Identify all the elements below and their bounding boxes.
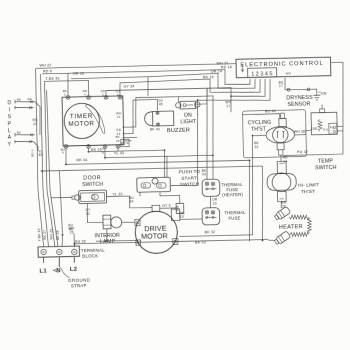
wire control pin 4 to node WH-17 [231, 79, 266, 97]
svg-text:(HEATER): (HEATER) [222, 192, 243, 197]
svg-text:2: 2 [102, 93, 104, 97]
wire display P1 to bus [35, 102, 41, 135]
on light body [180, 101, 196, 109]
svg-text:RD 16: RD 16 [221, 65, 232, 69]
svg-text:BK 32: BK 32 [205, 230, 216, 234]
svg-text:I: I [9, 107, 11, 113]
wire WH-25 drop to L2 [73, 233, 75, 247]
wire control pin 5 to push-to-start switch [168, 79, 273, 186]
wire bus BK-27 [40, 74, 48, 247]
wire BK-33 BU-28 terminal block to heater [74, 239, 268, 247]
wire WH-22 top bus to electronic control [36, 64, 236, 69]
svg-text:TEMP: TEMP [318, 158, 334, 164]
drive motor circle [135, 211, 178, 254]
svg-text:D: D [7, 100, 11, 106]
svg-text:MOTOR: MOTOR [141, 232, 168, 241]
wire sensor to ground GN [311, 89, 316, 95]
svg-text:YL 43: YL 43 [114, 151, 124, 155]
wire V2 drop to thermal fuse heater [205, 89, 209, 180]
wire timer right stub 3 [123, 136, 137, 138]
svg-text:BK 15: BK 15 [91, 147, 102, 151]
drive motor right box [171, 209, 180, 221]
svg-text:T-BK 43: T-BK 43 [45, 76, 59, 80]
wire heater plug tip [269, 239, 276, 242]
wire lamp bottom drop [106, 229, 109, 241]
wire timer right to buzzer [122, 100, 159, 134]
svg-text:L1: L1 [39, 268, 47, 274]
svg-text:BK 33: BK 33 [195, 240, 206, 244]
wire RD-6 / RD-16 to control pin 1 [42, 69, 250, 89]
timer terminal B4 bottom [116, 145, 120, 149]
svg-text:YL 33: YL 33 [112, 192, 122, 196]
door switch body [79, 190, 107, 204]
svg-text:WH: WH [285, 71, 291, 75]
svg-text:L2: L2 [70, 267, 78, 273]
temp switch top pin [320, 109, 325, 113]
svg-text:DOOR: DOOR [83, 175, 101, 181]
terminal L1 [41, 249, 47, 255]
svg-text:BLOCK: BLOCK [82, 253, 98, 258]
heater lower plug [274, 231, 291, 246]
heater upper plug [274, 206, 291, 221]
wire lower bus [42, 166, 264, 245]
electronic control box [236, 57, 331, 78]
svg-text:SWITCH: SWITCH [315, 165, 337, 171]
display connector P2 [15, 133, 35, 136]
wire L2 lead [73, 257, 75, 262]
wire GY-9 motor jumper [160, 208, 178, 210]
svg-text:BK 40: BK 40 [150, 128, 160, 132]
wire door switch to interior lamp [87, 203, 103, 223]
electronic control connector 1 2 3 4 5 [247, 68, 276, 78]
svg-text:GY 34: GY 34 [123, 84, 134, 88]
temp switch resistor 10K [318, 119, 322, 131]
timer terminal B3 bottom [103, 145, 107, 149]
timer terminal T3 top [104, 95, 108, 99]
drive motor top terminal box [152, 205, 160, 211]
svg-text:BU: BU [17, 131, 22, 135]
push-to-start switch button [152, 178, 158, 184]
svg-text:STRAP: STRAP [71, 283, 87, 288]
svg-text:46: 46 [69, 227, 73, 231]
svg-text:10K: 10K [311, 127, 318, 131]
wire second vertical to push switch [166, 156, 167, 178]
svg-text:17: 17 [226, 104, 230, 108]
wire door switch YL-33 to motor [106, 196, 152, 209]
svg-text:SWITCH: SWITCH [180, 181, 199, 186]
wire BK-15 from timer B2 [88, 147, 165, 180]
svg-text:1: 1 [64, 93, 66, 97]
wire GY-34 from timer to cycling enclosure [106, 88, 232, 115]
svg-text:10: 10 [180, 215, 184, 219]
svg-text:34: 34 [202, 172, 206, 176]
timer motor circle [64, 103, 100, 139]
wire lamp line to motor bottom [96, 240, 138, 243]
svg-text:23: 23 [213, 202, 217, 206]
svg-text:PUSH TO: PUSH TO [179, 169, 201, 174]
heater element zigzag top run [289, 215, 309, 220]
wire T-BK-43 to timer [44, 80, 89, 96]
wire thermal fuse to motor connector [180, 213, 202, 220]
svg-text:BUZZER: BUZZER [167, 127, 190, 134]
push-to-start switch body [137, 177, 171, 192]
wire timer T1 drop [66, 73, 69, 95]
svg-text:BK: BK [17, 98, 21, 102]
svg-text:4: 4 [117, 93, 119, 97]
svg-text:TH'ST: TH'ST [301, 189, 315, 195]
drive motor bottom-left terminal [136, 240, 141, 245]
wire timer B4 stub [117, 148, 119, 151]
svg-text:17: 17 [279, 84, 283, 88]
wire L1 lead [42, 257, 44, 263]
hi-limit t-stat bottom pin [277, 191, 286, 201]
thermal fuse body [202, 208, 220, 225]
hi-limit t-stat top pin [277, 161, 286, 173]
svg-text:BK 16: BK 16 [203, 75, 214, 79]
wire right-edge PU-32 riser to temp switch [281, 62, 345, 155]
svg-text:1 2 3 4 5: 1 2 3 4 5 [251, 71, 272, 77]
svg-text:RD 6: RD 6 [43, 69, 52, 73]
svg-text:BK 27: BK 27 [43, 230, 47, 240]
svg-text:TH'ST: TH'ST [251, 126, 267, 132]
svg-text:PU: PU [323, 127, 328, 131]
door switch plunger [75, 195, 81, 201]
svg-text:S: S [8, 114, 12, 120]
motor connector block [176, 203, 184, 213]
cycling t-stat top pin [279, 118, 286, 126]
wire timer right to on-light [122, 97, 179, 128]
timer terminal B1 bottom [64, 145, 68, 149]
svg-text:BK 28: BK 28 [56, 230, 60, 240]
wire between thermal fuses OR-23 [209, 197, 212, 209]
svg-text:BK 44: BK 44 [77, 158, 88, 162]
drive motor left terminal [135, 219, 140, 225]
svg-text:WH 38: WH 38 [294, 130, 305, 134]
junction dots [65, 164, 67, 166]
electronic control input arrow [241, 65, 243, 72]
svg-text:MOTOR: MOTOR [68, 120, 94, 128]
wire push-to-start to motor connector [160, 192, 180, 204]
wire display P2 stub [34, 142, 39, 151]
interior lamp base [103, 215, 111, 229]
cycling t-stat bottom pin [277, 143, 284, 150]
svg-text:15: 15 [116, 139, 120, 143]
thermal fuse (heater) body [202, 179, 220, 196]
wire BU-44 to cycling t-stat [242, 114, 279, 120]
buzzer body [152, 111, 173, 126]
svg-text:LAMP: LAMP [100, 239, 116, 245]
wire OR-16 drop to on-light rail [147, 77, 150, 96]
svg-text:Y-BK 43: Y-BK 43 [37, 228, 41, 241]
wire control to dryness sensor BU-17 [284, 78, 287, 90]
timer terminal T2 top [87, 95, 91, 99]
svg-text:A: A [8, 135, 12, 141]
wire lamp to motor terminal [122, 221, 135, 223]
temp switch box [311, 112, 337, 135]
timer cam pointer [85, 104, 105, 134]
svg-text:RD 6: RD 6 [31, 149, 35, 157]
wire BK-32 motor to cycling t-stat [177, 135, 268, 236]
wire push-to-start left drop [139, 192, 141, 196]
svg-text:3: 3 [84, 93, 86, 97]
wire timer right stub 4 [123, 140, 132, 142]
svg-text:FUSE: FUSE [228, 215, 240, 220]
wire BK-44 from timer B1 [66, 144, 252, 245]
svg-text:RD: RD [28, 97, 33, 101]
temp switch connector [329, 123, 337, 134]
svg-text:WH 21: WH 21 [49, 229, 53, 240]
wire bus to door switch [51, 196, 72, 199]
wire WH-38 cycling to temp switch [294, 130, 311, 135]
interior lamp bulb [111, 217, 122, 228]
svg-text:START: START [181, 175, 197, 180]
ground strap pointer [60, 267, 69, 278]
svg-text:Y: Y [8, 142, 12, 148]
svg-text:BU 28: BU 28 [75, 240, 86, 244]
wire bus WH-21 [45, 81, 55, 247]
ground strap pennant [53, 268, 59, 272]
svg-text:TERMINAL: TERMINAL [81, 248, 105, 254]
wire bus extra drop to lower bus [59, 171, 62, 247]
wire bus Y-BK-43 [35, 68, 43, 247]
terminal N [57, 249, 63, 255]
svg-text:HI- LIMIT: HI- LIMIT [298, 182, 319, 188]
svg-text:L: L [8, 128, 11, 134]
timer terminal T1 top [66, 95, 70, 99]
wire OR-16 / OR-14 to control pin 2 [71, 72, 255, 92]
ground symbol [313, 94, 320, 96]
timer side label box RD-6 [121, 139, 129, 146]
temp switch connector pins [337, 125, 343, 127]
svg-text:LIGHT: LIGHT [180, 119, 197, 125]
terminal block box [38, 246, 80, 257]
wire RD-14 cycling to hi-limit [280, 155, 282, 162]
svg-text:HEATER: HEATER [279, 224, 303, 231]
svg-text:GN: GN [321, 92, 327, 96]
svg-text:PU: PU [330, 125, 335, 129]
svg-text:P: P [8, 121, 12, 127]
svg-text:OR 16: OR 16 [73, 72, 84, 76]
wire BN-26 hi-limit to heater [280, 201, 282, 208]
dryness sensor contacts [285, 88, 311, 91]
cycling enclosure box [242, 110, 306, 158]
svg-text:6: 6 [62, 151, 64, 155]
terminal L2 [72, 249, 78, 255]
svg-text:SWITCH: SWITCH [82, 182, 103, 188]
svg-text:32: 32 [86, 212, 90, 216]
display connector P1 [14, 100, 35, 103]
wire N lead [58, 257, 61, 267]
wire BK-16 timer to control pin 3 [120, 78, 261, 96]
svg-text:RD 6: RD 6 [121, 141, 129, 145]
svg-text:BU 44: BU 44 [265, 109, 276, 113]
drive motor bottom-right terminal [173, 239, 178, 245]
svg-text:SENSOR: SENSOR [287, 101, 310, 108]
svg-text:OR 14: OR 14 [211, 70, 222, 74]
wire on-light right drop [196, 89, 207, 105]
cycling t-stat body [266, 126, 295, 143]
svg-text:32: 32 [254, 145, 258, 149]
heater element zigzag right run [307, 218, 311, 232]
svg-text:WH 22: WH 22 [39, 63, 51, 67]
heater element zigzag bottom run [290, 232, 309, 237]
timer box [62, 96, 124, 146]
svg-text:45: 45 [159, 102, 163, 106]
wire bus BK-28 [47, 90, 58, 247]
timer terminal B2 bottom [87, 145, 91, 149]
svg-text:GY 9: GY 9 [162, 204, 171, 208]
timer terminal T4 top [118, 95, 122, 99]
hi-limit t-stat body [267, 173, 296, 190]
wire YL-43 from timer B3 [105, 146, 214, 182]
svg-text:34: 34 [129, 200, 133, 204]
svg-text:21: 21 [117, 115, 121, 119]
wire on-light rail to V3 [179, 96, 215, 156]
